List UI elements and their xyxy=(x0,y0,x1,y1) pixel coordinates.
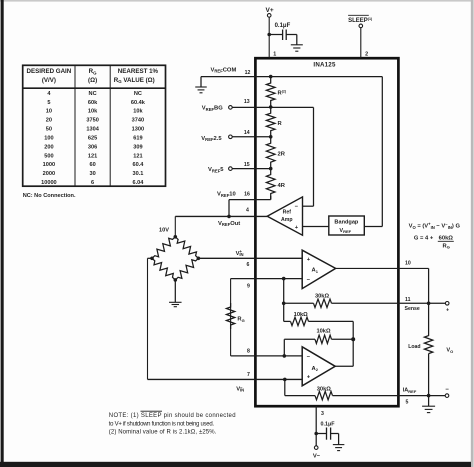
svg-text:NC: NC xyxy=(134,91,142,97)
svg-text:VREFBG: VREFBG xyxy=(202,106,223,112)
svg-text:1: 1 xyxy=(273,51,276,57)
svg-text:+: + xyxy=(446,308,449,314)
svg-text:VREF2.5: VREF2.5 xyxy=(201,136,222,142)
svg-text:13: 13 xyxy=(244,99,250,105)
svg-text:IAREF: IAREF xyxy=(403,388,417,394)
svg-text:(Ω): (Ω) xyxy=(88,77,97,84)
svg-text:500: 500 xyxy=(44,153,53,159)
svg-text:VO = (V+IN − V−IN) G: VO = (V+IN − V−IN) G xyxy=(409,222,461,230)
svg-text:A1: A1 xyxy=(312,268,319,274)
svg-text:RG: RG xyxy=(237,317,244,323)
svg-text:NEAREST 1%: NEAREST 1% xyxy=(118,68,159,75)
svg-text:A2: A2 xyxy=(312,366,319,372)
svg-text:10: 10 xyxy=(46,109,52,115)
svg-text:INA125: INA125 xyxy=(313,61,336,68)
svg-text:Ref: Ref xyxy=(283,210,292,216)
svg-text:VREFCOM: VREFCOM xyxy=(211,67,237,73)
svg-text:5: 5 xyxy=(47,100,50,106)
svg-text:−: − xyxy=(445,387,449,393)
svg-text:0.1μF: 0.1μF xyxy=(275,23,291,29)
svg-text:Sense: Sense xyxy=(405,306,420,312)
svg-text:30.1: 30.1 xyxy=(132,171,143,177)
svg-text:to V+ if shutdown function is: to V+ if shutdown function is not being … xyxy=(109,421,215,427)
svg-text:NOTE: (1) SLEEP pin should be: NOTE: (1) SLEEP pin should be connected xyxy=(109,413,236,419)
svg-text:V+: V+ xyxy=(266,7,274,14)
svg-text:Load: Load xyxy=(408,344,420,350)
svg-text:60k: 60k xyxy=(88,100,98,106)
svg-text:2R: 2R xyxy=(278,152,286,158)
svg-text:VO: VO xyxy=(446,348,453,354)
svg-text:60.4: 60.4 xyxy=(132,162,144,168)
svg-text:100: 100 xyxy=(44,135,53,141)
svg-text:14: 14 xyxy=(244,130,250,136)
svg-text:7: 7 xyxy=(247,372,250,378)
svg-text:11: 11 xyxy=(405,297,411,303)
svg-text:NC: No Connection.: NC: No Connection. xyxy=(23,193,76,199)
svg-text:15: 15 xyxy=(244,162,250,168)
svg-text:9: 9 xyxy=(247,284,250,290)
svg-text:1304: 1304 xyxy=(86,127,99,133)
svg-text:G = 4 +: G = 4 + xyxy=(414,236,434,242)
svg-text:12: 12 xyxy=(245,70,251,76)
svg-text:30kΩ: 30kΩ xyxy=(315,294,329,300)
svg-text:10kΩ: 10kΩ xyxy=(294,312,308,318)
svg-text:3750: 3750 xyxy=(86,118,98,124)
svg-text:60.4k: 60.4k xyxy=(131,100,146,106)
svg-text:121: 121 xyxy=(88,153,97,159)
svg-text:VREF5: VREF5 xyxy=(208,167,224,173)
svg-text:NC: NC xyxy=(89,91,97,97)
svg-text:(V/V): (V/V) xyxy=(42,77,56,84)
svg-text:4: 4 xyxy=(246,208,249,214)
svg-text:16: 16 xyxy=(244,192,250,198)
svg-text:VREFOut: VREFOut xyxy=(218,221,240,227)
svg-text:10V: 10V xyxy=(159,228,169,234)
svg-text:+: + xyxy=(307,374,311,380)
svg-text:10k: 10k xyxy=(133,109,143,115)
svg-text:619: 619 xyxy=(133,135,142,141)
svg-text:10: 10 xyxy=(405,261,411,267)
svg-text:RG: RG xyxy=(443,243,450,249)
svg-text:−: − xyxy=(307,354,311,360)
svg-text:(2) Nominal value of R is 2.1k: (2) Nominal value of R is 2.1kΩ, ±25%. xyxy=(109,430,217,436)
svg-text:3740: 3740 xyxy=(132,118,144,124)
svg-text:6: 6 xyxy=(247,262,250,268)
svg-text:1300: 1300 xyxy=(132,127,144,133)
svg-text:306: 306 xyxy=(88,144,97,150)
svg-text:8: 8 xyxy=(247,349,250,355)
svg-text:60: 60 xyxy=(89,162,95,168)
svg-text:VREF: VREF xyxy=(339,228,351,234)
svg-text:−: − xyxy=(307,278,311,284)
svg-text:DESIRED GAIN: DESIRED GAIN xyxy=(27,68,72,75)
svg-text:Amp: Amp xyxy=(281,217,293,223)
svg-text:625: 625 xyxy=(88,135,97,141)
svg-text:+: + xyxy=(307,257,311,263)
svg-text:200: 200 xyxy=(44,144,53,150)
svg-text:1000: 1000 xyxy=(43,162,55,168)
svg-text:0.1μF: 0.1μF xyxy=(321,421,336,427)
svg-text:6: 6 xyxy=(91,180,94,186)
svg-text:121: 121 xyxy=(133,153,142,159)
svg-text:50: 50 xyxy=(46,127,52,133)
svg-text:5: 5 xyxy=(406,400,409,406)
svg-text:10kΩ: 10kΩ xyxy=(316,328,330,334)
svg-text:VREF10: VREF10 xyxy=(217,192,236,198)
svg-text:60kΩ: 60kΩ xyxy=(439,236,454,242)
svg-text:10k: 10k xyxy=(88,109,98,115)
svg-text:309: 309 xyxy=(133,144,142,150)
svg-text:10000: 10000 xyxy=(41,180,57,186)
svg-text:6.04: 6.04 xyxy=(132,180,144,186)
svg-text:4R: 4R xyxy=(278,183,286,189)
svg-text:V−: V− xyxy=(313,454,321,460)
svg-text:20: 20 xyxy=(46,118,52,124)
svg-text:2: 2 xyxy=(365,51,368,57)
svg-text:Bandgap: Bandgap xyxy=(334,219,359,225)
svg-text:3: 3 xyxy=(321,411,324,417)
svg-text:2000: 2000 xyxy=(43,171,55,177)
svg-text:30kΩ: 30kΩ xyxy=(317,386,331,392)
svg-text:30: 30 xyxy=(89,171,95,177)
